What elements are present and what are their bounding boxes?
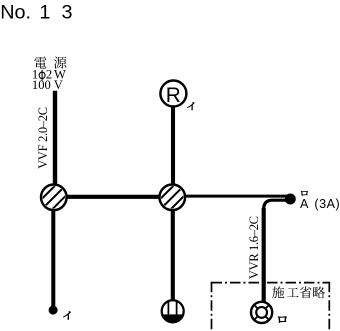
label イ at lamp receptacle <box>187 102 194 110</box>
svg-text:3: 3 <box>62 1 73 23</box>
VVF joint box (right): hatched circle <box>151 176 193 218</box>
VVF joint box (left): hatched circle <box>33 176 75 218</box>
label ロ at automatic switch <box>301 191 308 196</box>
label 施工省略 (construction omitted) <box>272 286 284 298</box>
label ロ at outdoor light <box>278 316 287 322</box>
svg-text:A: A <box>300 197 309 211</box>
hanging lamp: circle with two bars and filled base <box>160 299 186 324</box>
wire: power feed down to left joint box <box>53 91 57 197</box>
svg-text:VVF 2.0–2C: VVF 2.0–2C <box>36 107 50 169</box>
construction-omitted box: left edge <box>211 282 213 331</box>
label イ at switch <box>63 311 71 319</box>
svg-text:VVR 1.6–2C: VVR 1.6–2C <box>247 216 261 279</box>
outdoor light: double circle with diagonal ticks <box>251 302 272 323</box>
svg-text:No.: No. <box>0 1 31 23</box>
wire: automatic switch down to outdoor light (VVR run) <box>264 200 287 302</box>
construction-omitted box: top edge <box>212 282 330 284</box>
title No. 13 <box>0 1 72 23</box>
phi symbol of 1φ2W <box>39 70 45 81</box>
wire: right joint box to automatic switch <box>172 195 287 198</box>
svg-text:1: 1 <box>39 1 50 23</box>
label 電源 (power source) <box>34 56 46 68</box>
wire: left joint box down to switch <box>51 197 55 307</box>
svg-text:100 V: 100 V <box>32 78 63 92</box>
wire: right joint box down to hanging lamp <box>171 197 175 303</box>
single-pole switch (dot) <box>49 306 58 315</box>
wire: right joint box up to lamp receptacle <box>171 94 175 197</box>
svg-text:(3A): (3A) <box>314 197 340 211</box>
label 1φ2W <box>32 67 66 81</box>
automatic switch A(3A): dot <box>285 194 296 205</box>
wire: between left and right joint boxes <box>54 195 173 199</box>
lamp receptacle R: circle <box>160 81 186 108</box>
construction-omitted box: right edge <box>328 282 330 331</box>
svg-text:R: R <box>166 84 181 107</box>
